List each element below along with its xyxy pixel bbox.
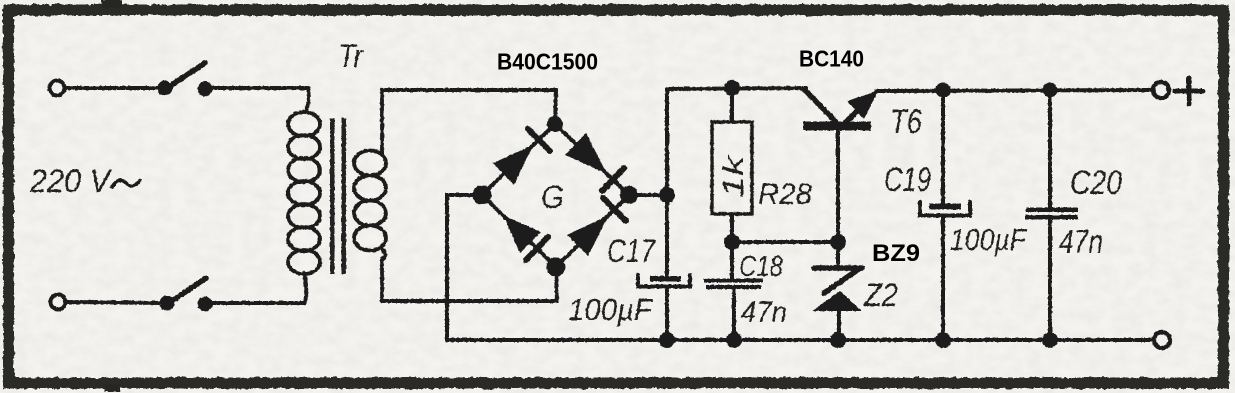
diode D3 (bridge bottom-right) [567, 198, 626, 256]
diode D2 (bridge top-right) [565, 133, 624, 191]
terminal: + output [1153, 82, 1169, 98]
terminal: 220V input top [50, 81, 65, 96]
wire [65, 86, 158, 90]
svg-text:Z2: Z2 [863, 277, 898, 313]
capacitor C20 [1025, 90, 1078, 340]
wire secondary bottom to bridge [382, 267, 557, 301]
transformer core [330, 118, 346, 274]
node: bridge bottom corner [547, 258, 566, 277]
label + [1175, 78, 1203, 104]
wire [730, 242, 734, 279]
zener diode Z2 [812, 242, 862, 340]
resistor R28 [712, 122, 752, 214]
node: top rail / C20 [1043, 83, 1058, 98]
node: bridge top corner [547, 116, 563, 132]
node: R28 bottom [724, 234, 740, 250]
wire bottom rail [447, 338, 1153, 342]
node: top rail / R28 [724, 80, 740, 96]
node: DC+ bus [659, 187, 675, 203]
svg-text:G: G [541, 179, 564, 215]
diode D1 (bridge top-left) [493, 129, 550, 185]
diode D4 (bridge bottom-left) [503, 215, 548, 260]
node: zener bottom [830, 332, 846, 348]
svg-text:220 V: 220 V [29, 163, 112, 199]
node: C20 bottom [1042, 332, 1058, 348]
transformer Tr primary winding [288, 88, 320, 303]
svg-text:C19: C19 [884, 161, 931, 199]
wire [730, 88, 734, 122]
terminal: 220V input bottom [51, 295, 66, 310]
svg-text:C17: C17 [607, 233, 656, 269]
svg-text:C18: C18 [739, 251, 783, 283]
terminal: - output [1154, 332, 1170, 348]
switch S1a [158, 63, 213, 97]
transistor T6 emitter [845, 91, 878, 123]
wire top rail left [667, 88, 806, 89]
wire DC- : bridge left corner to bottom rail [447, 195, 482, 340]
wire [212, 86, 308, 90]
svg-text:1k: 1k [718, 154, 750, 198]
wire [204, 301, 305, 305]
wire secondary top to bridge [382, 90, 556, 124]
svg-text:R28: R28 [758, 178, 812, 211]
wire [732, 289, 736, 341]
node: bridge right corner [620, 186, 638, 204]
switch S1b [160, 278, 213, 312]
svg-text:B40C1500: B40C1500 [497, 49, 598, 75]
node: zener top [830, 234, 846, 250]
wire base down [836, 131, 840, 242]
bridge rectifier G: diamond [482, 124, 629, 267]
svg-text:47n: 47n [741, 296, 787, 329]
svg-text:BZ9: BZ9 [872, 240, 920, 267]
wire [66, 302, 160, 303]
svg-text:47n: 47n [1059, 223, 1103, 260]
node: top rail / C19 [936, 83, 951, 98]
node: bridge left corner [473, 186, 492, 205]
capacitor C19 [920, 90, 970, 340]
wire DC+ bus vertical [665, 89, 669, 275]
node: C17 bottom [659, 332, 675, 348]
svg-text:BC140: BC140 [799, 46, 864, 72]
wire base node [732, 240, 838, 244]
svg-text:C20: C20 [1070, 164, 1122, 202]
svg-text:T6: T6 [890, 103, 922, 141]
transistor T6 base bar [803, 122, 871, 131]
wire DC+ : bridge right corner to bus [629, 193, 667, 197]
wire [730, 214, 734, 242]
capacitor C17 [638, 275, 690, 340]
transformer Tr secondary winding [354, 90, 386, 301]
wire top rail right [876, 90, 1153, 91]
svg-text:100µF: 100µF [950, 222, 1028, 257]
node: C19 bottom [935, 332, 951, 348]
capacitor C18 [704, 279, 763, 290]
svg-text:Tr: Tr [338, 38, 364, 74]
svg-text:100µF: 100µF [568, 292, 654, 327]
node: C18 bottom [726, 332, 742, 348]
transistor T6 collector [804, 89, 836, 122]
